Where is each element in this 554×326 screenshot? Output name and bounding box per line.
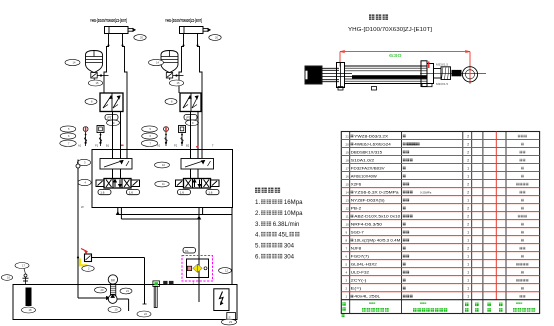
svg-text:YWZ8-D63/3.2X: YWZ8-D63/3.2X bbox=[354, 134, 389, 138]
svg-text:SGD-7: SGD-7 bbox=[351, 231, 364, 235]
svg-text:2: 2 bbox=[467, 182, 469, 186]
svg-text:1.6: 1.6 bbox=[100, 191, 105, 195]
svg-text:YHG-[D100/70X630]ZJ-[E10T]: YHG-[D100/70X630]ZJ-[E10T] bbox=[348, 27, 433, 33]
svg-text:630: 630 bbox=[389, 53, 403, 58]
svg-text:M: M bbox=[111, 278, 114, 283]
svg-text:PT: PT bbox=[108, 116, 112, 120]
svg-text:10Lx(2)Mp 40/5.3 0.4M: 10Lx(2)Mp 40/5.3 0.4M bbox=[354, 239, 400, 243]
svg-text:1: 1 bbox=[467, 231, 469, 235]
svg-text:NRF4-D6.3/50: NRF4-D6.3/50 bbox=[351, 223, 382, 227]
svg-text:2: 2 bbox=[467, 207, 469, 211]
svg-text:304: 304 bbox=[284, 254, 295, 261]
svg-text:2: 2 bbox=[467, 215, 469, 219]
svg-text:11: 11 bbox=[346, 215, 349, 219]
svg-text:18: 18 bbox=[346, 158, 350, 162]
svg-text:NYZ8F-D63X(S): NYZ8F-D63X(S) bbox=[351, 199, 385, 203]
svg-text:1.6: 1.6 bbox=[129, 191, 134, 195]
svg-text:W: W bbox=[81, 205, 84, 209]
svg-text:1: 1 bbox=[467, 199, 469, 203]
svg-text:X2F6: X2F6 bbox=[351, 182, 362, 186]
svg-text:20: 20 bbox=[346, 142, 350, 146]
svg-text:1: 1 bbox=[467, 174, 469, 178]
svg-text:2: 2 bbox=[467, 223, 469, 227]
svg-text:6.: 6. bbox=[255, 254, 260, 261]
svg-text:1.: 1. bbox=[255, 199, 260, 206]
svg-text:6.38L/min: 6.38L/min bbox=[273, 221, 300, 228]
svg-text:17: 17 bbox=[346, 166, 350, 170]
svg-text:YHG-[D100/70X630]ZJ-[E07]: YHG-[D100/70X630]ZJ-[E07] bbox=[165, 18, 202, 24]
svg-text:4WE6J-L6X/EG24: 4WE6J-L6X/EG24 bbox=[354, 142, 391, 146]
svg-text:16: 16 bbox=[346, 174, 350, 178]
svg-text:A1: A1 bbox=[78, 143, 82, 147]
svg-text:3.: 3. bbox=[255, 221, 260, 228]
svg-text:10Mpa: 10Mpa bbox=[284, 210, 303, 217]
svg-text:NJF8: NJF8 bbox=[351, 247, 362, 251]
svg-text:ABZ-D10X.5x10 0x10: ABZ-D10X.5x10 0x10 bbox=[354, 215, 400, 219]
svg-text:A2: A2 bbox=[157, 143, 161, 147]
svg-text:1.6: 1.6 bbox=[180, 191, 185, 195]
svg-text:1.6: 1.6 bbox=[208, 191, 213, 195]
svg-text:2: 2 bbox=[467, 247, 469, 251]
svg-text:2: 2 bbox=[467, 150, 469, 154]
svg-text:1: 1 bbox=[467, 295, 469, 299]
svg-text:FL: FL bbox=[185, 249, 189, 253]
svg-text:1: 1 bbox=[467, 271, 469, 275]
svg-text:ULD-F32: ULD-F32 bbox=[351, 271, 369, 275]
svg-text:14: 14 bbox=[346, 190, 350, 194]
svg-text:19: 19 bbox=[346, 150, 350, 154]
svg-text:13: 13 bbox=[346, 199, 350, 203]
svg-text:12: 12 bbox=[346, 207, 350, 211]
svg-text:1: 1 bbox=[467, 279, 469, 283]
svg-text:2: 2 bbox=[467, 190, 469, 194]
svg-text:M33X1.5: M33X1.5 bbox=[436, 63, 448, 67]
svg-text:B1: B1 bbox=[106, 143, 110, 147]
svg-text:0-25MPa: 0-25MPa bbox=[420, 190, 432, 194]
svg-text:FGD7(7): FGD7(7) bbox=[351, 255, 369, 259]
svg-text:2: 2 bbox=[467, 134, 469, 138]
svg-text:1: 1 bbox=[467, 166, 469, 170]
svg-text:1: 1 bbox=[467, 239, 469, 243]
svg-text:P2: P2 bbox=[174, 143, 178, 147]
svg-text:1: 1 bbox=[467, 287, 469, 291]
svg-text:10: 10 bbox=[346, 223, 350, 227]
svg-text:P1: P1 bbox=[95, 143, 99, 147]
svg-text:E(=): E(=) bbox=[351, 287, 361, 291]
svg-text:GL04L-H3X2: GL04L-H3X2 bbox=[351, 263, 377, 267]
svg-text:40x4L 250L: 40x4L 250L bbox=[354, 295, 380, 299]
svg-text:45L: 45L bbox=[278, 232, 289, 239]
svg-text:15: 15 bbox=[346, 182, 350, 186]
svg-text:16Mpa: 16Mpa bbox=[284, 199, 303, 206]
svg-text:2CY(-): 2CY(-) bbox=[351, 279, 367, 283]
svg-text:≈: ≈ bbox=[229, 315, 231, 319]
svg-text:2: 2 bbox=[467, 142, 469, 146]
svg-text:M33X1.5: M33X1.5 bbox=[436, 82, 448, 86]
svg-text:5.: 5. bbox=[255, 243, 260, 250]
svg-text:2: 2 bbox=[467, 158, 469, 162]
svg-text:YZS6-6.3X 0-25MPa: YZS6-6.3X 0-25MPa bbox=[354, 190, 398, 194]
svg-text:B2: B2 bbox=[186, 143, 190, 147]
svg-text:DBDS6K1X/315: DBDS6K1X/315 bbox=[351, 150, 382, 154]
svg-text:PB-2: PB-2 bbox=[351, 207, 362, 211]
svg-text:FD32FA2X/B03V: FD32FA2X/B03V bbox=[351, 166, 386, 170]
svg-text:21: 21 bbox=[346, 134, 350, 138]
svg-text:1: 1 bbox=[467, 255, 469, 259]
svg-text:2.: 2. bbox=[255, 210, 260, 217]
svg-text:S10A1.0/2: S10A1.0/2 bbox=[351, 158, 375, 162]
svg-text:1: 1 bbox=[467, 263, 469, 267]
svg-text:4.: 4. bbox=[255, 232, 260, 239]
svg-text:304: 304 bbox=[284, 243, 295, 250]
svg-text:AF6E10X40W: AF6E10X40W bbox=[351, 174, 378, 178]
svg-text:YHG-[D100/70X630]ZJ-[E07]: YHG-[D100/70X630]ZJ-[E07] bbox=[90, 18, 127, 24]
